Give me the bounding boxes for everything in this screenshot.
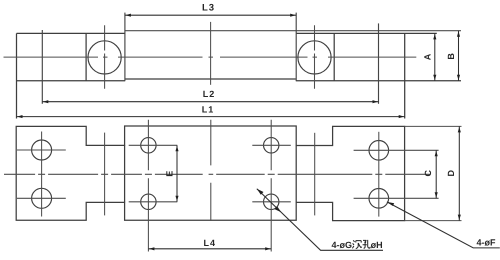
beam top view: left step edge / L3 extension line xyxy=(124,13,126,81)
svg-text:C: C xyxy=(423,170,433,177)
right loading hole circle (side view) xyxy=(298,41,331,74)
svg-text:A: A xyxy=(423,53,433,60)
dimension L2 arrowheads xyxy=(43,100,378,103)
plan view right boss vertical centerline xyxy=(314,133,316,216)
svg-text:L3: L3 xyxy=(202,3,215,14)
dimension L2 line xyxy=(42,101,378,103)
plan view lower-right hole horizontal centerline xyxy=(252,201,290,203)
dimension D extension lines xyxy=(405,126,462,220)
svg-text:4-øG: 4-øG xyxy=(332,240,353,250)
svg-text:D: D xyxy=(446,170,456,177)
plan view right plate lower hole centerline / C extension xyxy=(354,197,439,199)
beam top view: inner vertical edge x=86 xyxy=(85,33,87,80)
plan view mid-span vertical centerline xyxy=(210,120,212,221)
dimension E line xyxy=(176,145,178,202)
beam top view: raised middle section top edge (extends right as extension line for B) xyxy=(125,30,461,32)
plan view: part outline (three plates with necks) xyxy=(16,126,404,221)
counterbore callout leader arrowhead xyxy=(257,189,281,213)
dimension L4 line xyxy=(148,248,271,250)
plan view left counterbored holes centerline / L4 extension xyxy=(147,120,149,252)
left loading hole circle (side view) xyxy=(88,41,121,74)
beam top view: right end block top edge (extends right as extension for A) xyxy=(296,32,437,34)
beam top view: right outer edge with L1 extension xyxy=(404,33,406,118)
top view left hole vertical centerline xyxy=(104,25,106,89)
plan view lower-left hole centerline / E extension xyxy=(129,201,178,203)
beam top view: L2 right extension line crossing beam xyxy=(378,23,380,103)
dimension C arrowheads xyxy=(435,151,438,198)
svg-text:B: B xyxy=(446,53,456,60)
counterbore callout leader line xyxy=(257,189,383,251)
plan view right holes vertical centerline xyxy=(378,132,380,217)
top view right hole vertical centerline xyxy=(314,25,316,89)
plan view middle plate left and right edges across neck zone xyxy=(125,145,297,202)
plan view left holes vertical centerline xyxy=(41,132,43,217)
plan view left plate lower hole horizontal centerline xyxy=(17,197,66,199)
beam top view: inner vertical edge x=334 xyxy=(333,33,335,80)
beam top view: L2 left extension line crossing beam xyxy=(41,30,43,104)
plan view horizontal centerline xyxy=(4,173,430,175)
plan view: right plate lower mounting hole xyxy=(369,189,389,209)
svg-text:E: E xyxy=(165,171,175,177)
plan view: middle plate lower-left counterbored hole xyxy=(141,194,156,209)
dimension L1 arrowheads xyxy=(17,115,404,118)
dimension L3 line xyxy=(125,14,296,16)
beam top view: right end block bottom edge (extends right as extension for A and B) xyxy=(296,80,461,82)
svg-text:L4: L4 xyxy=(204,238,217,248)
plan view: left plate upper mounting hole xyxy=(32,140,52,160)
dimension B line xyxy=(458,31,460,81)
plan view upper-left hole centerline / E extension xyxy=(129,144,178,146)
hole callout 4-oF leader line xyxy=(387,202,500,248)
top view horizontal centerline xyxy=(4,56,417,58)
plan view: left plate lower mounting hole xyxy=(32,188,52,208)
dimension B arrowheads xyxy=(457,31,460,80)
svg-text:4-øF: 4-øF xyxy=(477,237,497,247)
plan view: middle plate lower-right counterbored hole xyxy=(264,194,279,209)
dimension D arrowheads xyxy=(458,127,461,220)
plan view: right plate upper mounting hole xyxy=(369,141,389,161)
plan view left plate upper hole horizontal centerline xyxy=(17,149,66,151)
dimension E arrowheads xyxy=(175,146,178,201)
dimension L1 line xyxy=(17,116,405,118)
dimension L4 arrowheads xyxy=(149,247,271,250)
beam top view: left end block outline xyxy=(17,33,126,80)
plan view right plate upper hole centerline / C extension xyxy=(354,149,439,151)
plan view upper-right hole horizontal centerline xyxy=(252,144,290,146)
plan view: middle plate upper-left counterbored hole xyxy=(141,138,156,153)
top view mid-span vertical centerline xyxy=(210,22,212,85)
dimension A arrowheads xyxy=(433,34,436,80)
plan view left boss vertical centerline xyxy=(104,133,106,216)
beam top view: right step edge / L3 extension line xyxy=(295,13,297,81)
dimension A line xyxy=(434,33,436,80)
CJK glyph chen (sink) hand drawn xyxy=(352,240,361,248)
beam top view: middle section bottom edge xyxy=(125,78,296,80)
svg-text:L1: L1 xyxy=(202,104,215,114)
beam top view: left outer edge with L1 extension xyxy=(16,33,18,118)
dimension C line xyxy=(435,150,437,198)
plan view: middle plate upper-right counterbored hole xyxy=(264,138,279,153)
svg-text:øH: øH xyxy=(371,240,383,250)
dimension L3 arrowheads xyxy=(126,14,296,17)
hole callout 4-oF arrowhead xyxy=(387,202,394,206)
dimension D line xyxy=(458,126,460,220)
plan view right counterbored holes centerline / L4 extension xyxy=(270,120,272,252)
CJK glyph kong (hole) hand drawn xyxy=(363,240,371,248)
svg-text:L2: L2 xyxy=(203,89,216,99)
